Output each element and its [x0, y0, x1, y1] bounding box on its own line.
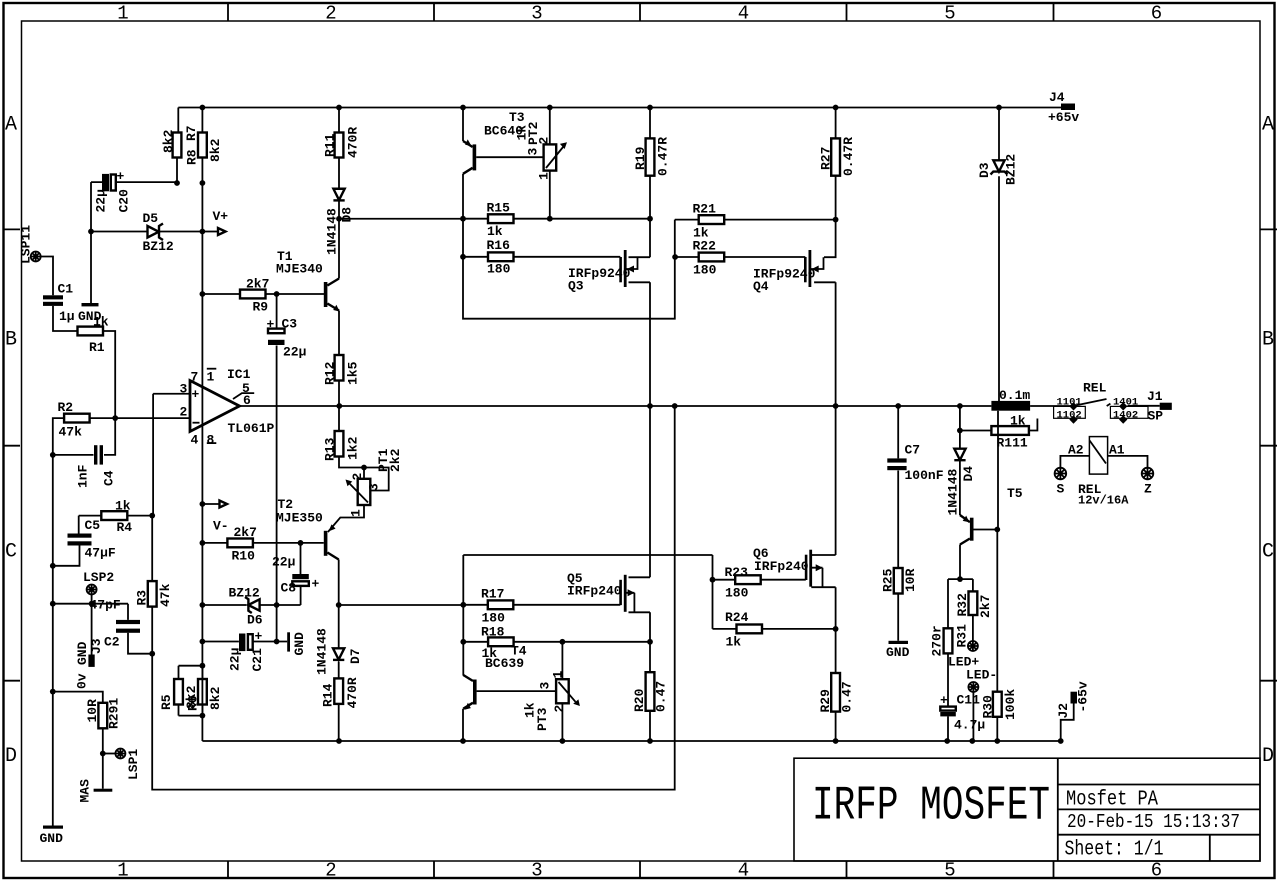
svg-text:R1: R1: [89, 340, 105, 355]
svg-text:+: +: [312, 577, 320, 592]
resistor R8: [201, 108, 203, 184]
svg-text:2k2: 2k2: [388, 448, 403, 472]
ground symbol GND (C21): [287, 632, 290, 651]
svg-text:C2: C2: [104, 635, 120, 650]
svg-text:0.47: 0.47: [840, 681, 855, 712]
svg-text:R20: R20: [632, 688, 647, 712]
capacitor C4: [53, 418, 115, 455]
wire 0v line: [53, 692, 103, 703]
svg-text:R9: R9: [253, 300, 269, 315]
svg-text:0v: 0v: [75, 673, 90, 689]
svg-text:1: 1: [207, 370, 215, 385]
svg-text:180: 180: [725, 586, 749, 601]
svg-text:1: 1: [551, 671, 566, 679]
top column ticks: [228, 3, 1054, 21]
node R22 on right bias bus: [672, 254, 678, 260]
svg-text:180: 180: [482, 611, 506, 626]
diode D4 1N4148: [959, 406, 961, 515]
svg-text:LED-: LED-: [966, 668, 997, 683]
trimmer PT2 1k: [549, 108, 551, 219]
svg-text:2k7: 2k7: [978, 595, 993, 618]
svg-text:0.1m: 0.1m: [999, 388, 1030, 403]
svg-text:1k5: 1k5: [346, 361, 361, 385]
wire C20 left to D5 anode: [90, 182, 92, 231]
node T2 emitter / D7 top: [336, 602, 342, 608]
svg-text:MAS: MAS: [78, 779, 93, 803]
svg-text:C: C: [5, 541, 17, 564]
node C5 bottom on gnd bus: [50, 563, 56, 569]
svg-text:C: C: [1262, 541, 1274, 564]
svg-text:R27: R27: [819, 147, 834, 170]
right row ticks: [1260, 229, 1277, 680]
capacitor C21: [202, 641, 287, 643]
svg-text:100k: 100k: [1003, 689, 1018, 720]
resistor R24: [713, 628, 836, 630]
svg-text:R11: R11: [323, 133, 338, 157]
svg-text:2: 2: [180, 405, 188, 420]
svg-text:1101: 1101: [1057, 396, 1082, 408]
node R3/C2 feedback: [149, 651, 155, 657]
svg-text:R29: R29: [818, 689, 833, 713]
node C8 top: [298, 540, 304, 546]
resistor R20 0.47: [649, 642, 651, 741]
wire bias bus left vertical: [463, 219, 675, 319]
wire -65V bottom rail: [202, 740, 1060, 742]
svg-text:R31: R31: [955, 624, 970, 648]
node T5 collector: [994, 527, 1000, 533]
wire lower bias bus crossover: [463, 555, 712, 676]
svg-text:R18: R18: [481, 625, 505, 640]
svg-text:3: 3: [531, 3, 542, 25]
svg-text:5: 5: [944, 3, 955, 25]
svg-text:1k: 1k: [487, 224, 503, 239]
svg-text:1k: 1k: [1010, 414, 1026, 429]
bottom column ticks: [228, 861, 1054, 878]
svg-text:1µ: 1µ: [59, 309, 75, 324]
resistor R32: [969, 591, 978, 615]
svg-text:C11: C11: [957, 693, 981, 708]
connector J2 -65v: [1071, 692, 1078, 704]
connector J3 GND pad: [88, 655, 94, 667]
wire T1 emitter to R12: [338, 311, 340, 356]
svg-text:470R: 470R: [345, 677, 360, 708]
node R16 on bias bus: [460, 254, 466, 260]
supply arrow V+: [202, 231, 218, 233]
svg-text:LSP2: LSP2: [83, 570, 114, 585]
svg-text:SP: SP: [1148, 409, 1164, 424]
left row ticks: [3, 229, 20, 680]
transistor T3 BC640: [473, 144, 477, 170]
resistor R25: [894, 568, 903, 594]
wire C1 to R1: [53, 306, 77, 331]
svg-text:R16: R16: [487, 238, 511, 253]
row letters left: [5, 114, 17, 769]
svg-text:R3: R3: [135, 590, 150, 606]
connector Z: [1142, 468, 1154, 480]
capacitor C3: [276, 294, 278, 642]
connector J1 SP: [1160, 403, 1172, 410]
svg-text:1N4148: 1N4148: [315, 628, 330, 675]
svg-text:D: D: [1262, 745, 1274, 768]
ground symbol GND (bottom left): [43, 826, 63, 829]
svg-text:2: 2: [325, 860, 336, 882]
node V+: [200, 229, 206, 235]
svg-text:GND: GND: [40, 831, 64, 846]
resistor R30 100k: [996, 530, 998, 742]
node D5 anode: [88, 229, 94, 235]
svg-text:6: 6: [243, 393, 251, 408]
connector LED+: [968, 641, 978, 651]
ground symbol MAS: [102, 754, 104, 789]
node C3 bottom on zener line: [274, 602, 280, 608]
column numbers bottom: [117, 860, 1162, 882]
resistor R111: [960, 419, 1038, 431]
node inverting input: [112, 415, 118, 421]
svg-text:C5: C5: [85, 518, 101, 533]
resistor R21: [675, 219, 836, 221]
node PT2 pin1: [547, 216, 553, 222]
svg-text:1nF: 1nF: [76, 464, 91, 488]
resistor R12: [335, 355, 344, 381]
svg-text:D6: D6: [247, 613, 263, 628]
resistor R4: [79, 515, 153, 517]
svg-text:1402: 1402: [1113, 409, 1138, 421]
svg-text:GND: GND: [75, 641, 90, 665]
resistor R11: [338, 108, 340, 189]
resistor R16: [463, 256, 620, 258]
title block frame: [794, 758, 1260, 861]
node C20 junctions: [174, 180, 180, 186]
wire bias line to R15 bus: [339, 218, 463, 220]
svg-text:12v/16A: 12v/16A: [1078, 494, 1129, 508]
resistor R3: [151, 516, 153, 660]
node T5 base / R31 R32: [957, 576, 963, 582]
relay contact 1101/1102: [1069, 402, 1077, 410]
svg-text:R5: R5: [159, 694, 174, 710]
svg-text:1: 1: [117, 3, 128, 25]
svg-text:R7: R7: [184, 125, 199, 141]
wire T2 emitter down: [338, 560, 340, 606]
wire R31/R32 tee: [948, 579, 973, 628]
node R2/C4 left: [50, 452, 56, 458]
svg-text:4: 4: [191, 433, 199, 448]
svg-text:+: +: [940, 693, 948, 708]
svg-text:1102: 1102: [1057, 409, 1082, 421]
svg-text:R291: R291: [107, 698, 122, 729]
svg-text:J2: J2: [1056, 703, 1071, 719]
node PT3 top: [560, 639, 566, 645]
mosfet Q5 IRFp240: [627, 406, 651, 642]
wire R2 to op-amp pin2: [53, 418, 190, 455]
node C21 left on V- bus: [200, 639, 206, 645]
svg-text:R2: R2: [58, 400, 74, 415]
svg-text:1k: 1k: [115, 499, 131, 514]
node top rail junctions: [200, 105, 206, 111]
resistor R17: [463, 604, 620, 606]
wire T2 emitter to lower bias bus: [339, 604, 463, 606]
svg-text:TL061P: TL061P: [228, 421, 275, 436]
node R9 left on V+ bus: [200, 291, 206, 297]
transistor T4 BC639: [473, 680, 477, 705]
svg-text:6: 6: [1151, 3, 1162, 25]
svg-text:R32: R32: [955, 593, 970, 617]
svg-text:4.7µ: 4.7µ: [954, 718, 985, 733]
supply arrow V-: [200, 501, 206, 507]
svg-text:20-Feb-15 15:13:37: 20-Feb-15 15:13:37: [1067, 811, 1240, 833]
svg-text:REL: REL: [1083, 381, 1107, 396]
svg-text:J4: J4: [1049, 90, 1065, 105]
resistor R29 0.47: [831, 673, 840, 712]
mosfet Q6 IRFp240: [811, 406, 835, 673]
svg-text:D8: D8: [340, 207, 355, 223]
svg-text:J1: J1: [1147, 389, 1163, 404]
diode D3 zener BZ12: [998, 108, 999, 530]
wire Q4 source jog: [824, 220, 836, 258]
svg-text:R25: R25: [881, 568, 896, 592]
wire T3 emitter to rail: [462, 108, 464, 142]
svg-text:BZ12: BZ12: [143, 239, 174, 254]
row letters right: [1262, 114, 1274, 769]
svg-text:Q3: Q3: [568, 279, 584, 294]
svg-text:R19: R19: [633, 146, 648, 170]
svg-text:R12: R12: [323, 361, 338, 385]
svg-text:3: 3: [531, 860, 542, 882]
svg-text:R111: R111: [997, 436, 1028, 451]
wire R1 to inverting node: [103, 331, 115, 418]
svg-text:PT3: PT3: [535, 707, 550, 731]
svg-text:2: 2: [350, 473, 365, 481]
node R19/Q3 source: [647, 216, 653, 222]
svg-text:A: A: [1262, 114, 1274, 137]
diode D8 1N4148: [333, 189, 344, 200]
svg-text:47k: 47k: [158, 583, 173, 607]
svg-text:+: +: [192, 387, 200, 402]
svg-text:R22: R22: [693, 239, 717, 254]
svg-text:IRFp240: IRFp240: [754, 559, 809, 574]
svg-text:47pF: 47pF: [90, 598, 121, 613]
resistor R9: [202, 293, 324, 295]
resistor R291 10R: [98, 703, 107, 729]
svg-text:C4: C4: [102, 470, 117, 486]
wire feedback return: [152, 406, 675, 790]
resistor R23: [713, 579, 806, 581]
resistor R27 0.47R: [835, 108, 837, 220]
svg-text:S: S: [1057, 482, 1065, 497]
svg-text:1: 1: [349, 509, 364, 517]
node R23 on right lower bus: [710, 577, 716, 583]
resistor R31 270r: [944, 628, 953, 653]
svg-text:B: B: [1262, 329, 1274, 352]
svg-text:2: 2: [552, 705, 567, 713]
svg-text:J3: J3: [89, 638, 104, 654]
svg-text:GND: GND: [292, 632, 307, 656]
svg-text:D3: D3: [977, 162, 992, 178]
svg-text:5: 5: [944, 860, 955, 882]
resistor R18: [463, 641, 650, 643]
inductor 0.1m: [991, 401, 1030, 411]
svg-text:V-: V-: [213, 519, 229, 534]
svg-text:8k2: 8k2: [208, 138, 223, 162]
svg-text:C7: C7: [905, 443, 921, 458]
node C3 top: [274, 291, 280, 297]
relay coil REL 12v/16A: [1089, 437, 1107, 475]
svg-text:180: 180: [693, 263, 717, 278]
wire output rail: [240, 405, 992, 407]
capacitor C8: [300, 543, 302, 574]
svg-text:100nF: 100nF: [905, 468, 944, 483]
node R18 on lower bus: [460, 639, 466, 645]
svg-text:2: 2: [537, 137, 552, 145]
capacitor C5: [53, 516, 80, 566]
svg-text:22µ: 22µ: [228, 648, 243, 671]
resistor R14: [334, 678, 343, 704]
transistor T5: [970, 518, 974, 541]
wire PT1 pin1 to T2 collector: [328, 505, 364, 532]
svg-text:8k2: 8k2: [208, 686, 223, 710]
svg-text:LSP1: LSP1: [126, 749, 141, 780]
node bias bus top: [460, 216, 466, 222]
svg-text:B: B: [5, 329, 17, 352]
svg-text:1N4148: 1N4148: [946, 468, 961, 515]
svg-text:C1: C1: [58, 282, 74, 297]
svg-text:C20: C20: [117, 189, 132, 213]
node R5/R6 top and bottom: [200, 663, 206, 669]
svg-text:R24: R24: [725, 610, 749, 625]
svg-text:1: 1: [117, 860, 128, 882]
relay contact 1401/1402: [1119, 402, 1127, 410]
connector LSP1: [115, 749, 125, 759]
svg-text:1k2: 1k2: [346, 436, 361, 460]
svg-text:C3: C3: [282, 317, 298, 332]
node R18 right on Q5 source line: [647, 639, 653, 645]
node D6 left on V- bus: [200, 602, 206, 608]
svg-text:3: 3: [526, 148, 541, 156]
capacitor C1: [43, 295, 63, 299]
svg-text:T5: T5: [1007, 486, 1023, 501]
op-amp power line pins 7/4: [201, 232, 203, 742]
svg-text:47k: 47k: [59, 425, 83, 440]
ground symbol GND (C20/D5): [90, 232, 92, 304]
svg-text:2k7: 2k7: [246, 277, 269, 292]
resistor R6: [179, 666, 203, 716]
svg-text:V+: V+: [213, 209, 229, 224]
svg-text:R8: R8: [185, 149, 200, 165]
svg-text:1k: 1k: [93, 315, 109, 330]
svg-text:6: 6: [1151, 860, 1162, 882]
svg-text:1: 1: [537, 172, 552, 180]
svg-text:Mosfet PA: Mosfet PA: [1066, 789, 1158, 812]
wire gnd bus to bottom: [52, 692, 54, 826]
svg-text:R23: R23: [725, 565, 749, 580]
TITLEBLOCK: [794, 758, 1260, 861]
node R4 on feedback bus: [149, 513, 155, 519]
svg-text:R6: R6: [186, 695, 201, 711]
svg-text:IRFP MOSFET: IRFP MOSFET: [812, 780, 1050, 834]
svg-text:47µF: 47µF: [85, 546, 116, 561]
diode D7 1N4148: [338, 605, 340, 678]
svg-text:1k: 1k: [726, 635, 742, 650]
svg-text:4: 4: [738, 3, 749, 25]
resistor R2: [64, 414, 90, 423]
diode D5 zener BZ12: [91, 231, 202, 233]
resistor R1: [78, 327, 104, 336]
svg-text:R17: R17: [481, 587, 504, 602]
svg-text:C8: C8: [281, 581, 297, 596]
wire LSP11 to C1: [41, 257, 53, 296]
svg-text:R13: R13: [323, 437, 338, 461]
svg-text:A: A: [5, 114, 17, 137]
resistor R10: [202, 542, 323, 544]
svg-text:+: +: [267, 317, 275, 332]
node R10 left on V- bus: [200, 540, 206, 546]
svg-text:Z: Z: [1144, 482, 1152, 497]
svg-text:IRFp240: IRFp240: [567, 584, 622, 599]
node R24 right on Q6 source line: [833, 626, 839, 632]
svg-text:2k7: 2k7: [234, 525, 257, 540]
mosfet Q3 IRFp9240: [625, 219, 650, 406]
svg-text:10R: 10R: [85, 699, 100, 723]
svg-text:C21: C21: [250, 648, 265, 672]
resistor R19 0.47R: [649, 108, 651, 219]
column numbers top: [117, 3, 1162, 25]
resistor R13: [335, 431, 344, 457]
node C3/C8 gnd tie: [274, 639, 280, 645]
svg-text:+65v: +65v: [1048, 110, 1079, 125]
svg-text:GND: GND: [886, 645, 910, 660]
node R17 on lower bus: [460, 602, 466, 608]
svg-text:BC639: BC639: [485, 656, 524, 671]
resistor R7: [177, 108, 178, 184]
svg-text:10R: 10R: [903, 568, 918, 592]
svg-text:470R: 470R: [346, 127, 361, 158]
svg-text:7: 7: [191, 370, 199, 385]
connector J4: [1061, 104, 1075, 111]
svg-text:8: 8: [207, 433, 215, 448]
svg-text:D7: D7: [348, 648, 363, 664]
svg-text:D: D: [5, 745, 17, 768]
svg-text:4: 4: [738, 860, 749, 882]
node D8/T1 collector: [336, 216, 342, 222]
svg-text:+: +: [255, 629, 263, 644]
resistor R5: [178, 666, 180, 716]
svg-text:IC1: IC1: [227, 367, 251, 382]
svg-text:Q4: Q4: [753, 279, 769, 294]
svg-text:R4: R4: [117, 520, 133, 535]
svg-text:-65v: -65v: [1076, 681, 1091, 712]
svg-text:R21: R21: [693, 202, 717, 217]
ground symbol GND (R25): [889, 641, 909, 644]
trimmer PT3 1k: [561, 642, 563, 741]
svg-text:22µ: 22µ: [94, 189, 109, 212]
transistor T2 MJE350: [324, 531, 328, 556]
wire T3 collector to bias bus: [462, 174, 464, 219]
capacitor C11: [940, 707, 956, 711]
svg-text:A1: A1: [1109, 443, 1125, 458]
node R21/R27/Q4 source: [833, 217, 839, 223]
svg-text:D4: D4: [961, 466, 976, 482]
svg-text:Sheet: 1/1: Sheet: 1/1: [1065, 838, 1164, 861]
svg-text:8k2: 8k2: [161, 129, 176, 153]
wire LED- to rail: [972, 692, 974, 741]
node LSP1: [100, 751, 106, 757]
transistor T1 MJE340: [324, 282, 328, 307]
wire R8 bottom down V+ bus: [201, 183, 203, 232]
wire gnd spur: [53, 595, 128, 656]
svg-text:R15: R15: [487, 201, 511, 216]
svg-text:0.47R: 0.47R: [841, 137, 856, 176]
svg-text:BZ12: BZ12: [229, 586, 260, 601]
svg-text:R30: R30: [981, 695, 996, 719]
